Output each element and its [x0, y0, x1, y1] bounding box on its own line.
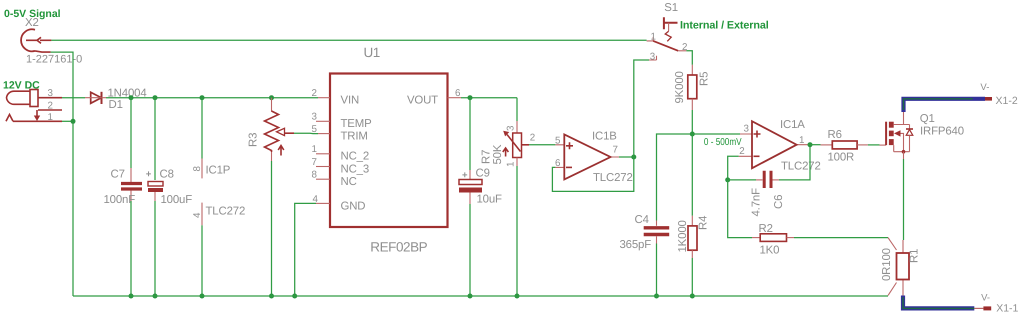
pin VOUT stub	[448, 97, 462, 99]
svg-text:C8: C8	[160, 169, 174, 181]
junction IC1A output node	[808, 142, 813, 147]
svg-text:1: 1	[799, 135, 804, 146]
svg-text:3: 3	[312, 112, 318, 123]
svg-text:V-: V-	[981, 292, 990, 303]
svg-text:IRFP640: IRFP640	[920, 125, 964, 137]
ground bus wire	[73, 295, 888, 297]
svg-text:VOUT: VOUT	[407, 95, 438, 107]
pin NC stub	[316, 178, 330, 180]
switch S1 symbol	[647, 17, 687, 60]
op-amp IC1B	[555, 135, 619, 180]
trimmer R3	[265, 98, 295, 161]
junction C4 ground	[654, 294, 659, 299]
svg-text:100uF: 100uF	[161, 194, 193, 206]
pin NC_2 stub	[316, 153, 330, 155]
wire divider node down to R4	[691, 134, 693, 216]
svg-text:365pF: 365pF	[620, 239, 652, 251]
capacitor C7	[121, 168, 142, 201]
svg-text:1: 1	[312, 144, 317, 155]
svg-text:U1: U1	[364, 45, 380, 60]
resistor R1 sense	[888, 238, 909, 296]
junction C9 ground	[468, 294, 473, 299]
wire Q1 source down	[903, 159, 905, 240]
connector X1 12V jack symbol	[6, 90, 62, 122]
junction C7 tap	[129, 95, 134, 100]
wire divider to C4 branch	[657, 134, 693, 221]
svg-text:3: 3	[744, 124, 750, 135]
svg-text:+: +	[146, 169, 152, 180]
wire C9 branch lower	[469, 204, 471, 296]
svg-text:3: 3	[48, 88, 54, 99]
svg-text:5: 5	[555, 135, 561, 146]
svg-text:7: 7	[312, 157, 317, 168]
wire R2 to R1 sense node	[794, 237, 888, 239]
svg-text:C6: C6	[773, 195, 785, 209]
svg-text:6: 6	[455, 88, 461, 99]
svg-text:NC_2: NC_2	[341, 151, 370, 163]
svg-text:R4: R4	[698, 216, 710, 230]
wire R7 wiper to IC1B plus input	[529, 144, 555, 146]
pin GND stub	[316, 202, 330, 204]
wire X2 shield down to ground bus	[51, 52, 73, 296]
svg-text:R3: R3	[248, 133, 260, 147]
wire IC1P pin4 to ground	[201, 225, 203, 296]
svg-text:2: 2	[530, 133, 535, 144]
pin TEMP stub	[316, 120, 330, 122]
wire R7 bottom to ground	[516, 166, 518, 296]
svg-text:100R: 100R	[828, 151, 855, 163]
wire R5 bottom to divider node	[691, 110, 693, 134]
wire C8 branch lower	[154, 201, 156, 296]
svg-text:GND: GND	[341, 200, 366, 212]
svg-text:Q1: Q1	[920, 113, 935, 125]
svg-text:VIN: VIN	[341, 95, 360, 107]
svg-text:4.7nF: 4.7nF	[751, 188, 763, 217]
svg-text:TRIM: TRIM	[341, 131, 368, 143]
svg-text:1K0: 1K0	[760, 245, 780, 257]
wire divider node to IC1A plus input	[692, 133, 740, 135]
junction ground at X1 pin1	[71, 119, 76, 124]
svg-text:C9: C9	[476, 168, 490, 180]
connector X2 BNC symbol	[21, 29, 51, 52]
wire V- thick blue bottom	[903, 296, 974, 309]
IC U1 REF02BP box	[330, 74, 448, 228]
svg-text:2: 2	[312, 88, 317, 99]
wire C7 branch lower	[130, 201, 132, 296]
svg-text:X2: X2	[25, 17, 39, 29]
svg-text:9K000: 9K000	[674, 71, 686, 103]
junction R3 ground	[269, 294, 274, 299]
wire R6 to Q1 gate	[868, 144, 880, 146]
svg-text:X1-2: X1-2	[996, 95, 1018, 107]
svg-text:TLC272: TLC272	[206, 206, 246, 218]
svg-text:Internal / External: Internal / External	[680, 20, 769, 32]
pin X1-1 stub	[974, 307, 983, 309]
svg-text:S1: S1	[664, 2, 678, 14]
svg-text:1: 1	[651, 32, 656, 43]
svg-text:REF02BP: REF02BP	[370, 240, 427, 255]
wire GND pin to ground bus	[295, 203, 316, 296]
trimmer R7	[503, 121, 529, 166]
capacitor C6	[756, 171, 779, 188]
svg-text:4: 4	[192, 212, 203, 218]
svg-text:5: 5	[312, 124, 318, 135]
svg-text:X1-1: X1-1	[996, 303, 1018, 315]
wire X2 center pin to S1 pin 1	[51, 39, 646, 41]
svg-text:V-: V-	[980, 82, 989, 93]
svg-text:R5: R5	[699, 72, 711, 86]
junction C7 ground	[129, 294, 134, 299]
resistor R2	[752, 234, 794, 242]
svg-text:1-227161-0: 1-227161-0	[26, 54, 82, 66]
svg-text:1K000: 1K000	[677, 220, 689, 252]
junction feedback node	[725, 177, 730, 182]
svg-text:3: 3	[506, 125, 517, 131]
wire feedback node down to R2	[728, 180, 752, 238]
wire IC1A minus input to feedback node	[728, 156, 739, 180]
svg-text:TEMP: TEMP	[341, 118, 372, 130]
wire C7 branch upper	[130, 98, 132, 168]
svg-text:TLC272: TLC272	[593, 172, 633, 184]
wire IC1B output	[619, 156, 634, 158]
wire 12V pin3 to diode	[62, 97, 85, 99]
wire IC1B feedback loop	[552, 157, 633, 191]
svg-text:C4: C4	[635, 214, 649, 226]
pin VIN stub	[318, 97, 330, 99]
svg-text:1: 1	[48, 112, 53, 123]
svg-text:8: 8	[192, 166, 203, 172]
svg-text:3: 3	[650, 51, 656, 62]
svg-text:R2: R2	[759, 223, 773, 235]
wire R4 to ground	[691, 258, 693, 296]
svg-text:1: 1	[506, 162, 517, 167]
svg-text:2: 2	[48, 101, 53, 112]
svg-text:R6: R6	[828, 129, 842, 141]
resistor R4	[688, 216, 697, 258]
pin NC_3 stub	[316, 166, 330, 168]
junction R3 tap	[269, 95, 274, 100]
wire C4 to ground	[656, 244, 658, 297]
junction R4 ground	[690, 294, 695, 299]
resistor R6	[821, 141, 868, 149]
capacitor C4	[644, 221, 670, 244]
svg-text:8: 8	[312, 170, 318, 181]
svg-text:IC1P: IC1P	[206, 165, 231, 177]
wire R7 top branch	[516, 98, 518, 121]
svg-text:7: 7	[613, 145, 618, 156]
junction R7 ground	[515, 294, 520, 299]
transistor Q1 gate lead	[880, 144, 887, 146]
wire VOUT to R7	[461, 97, 517, 99]
svg-text:TLC272: TLC272	[781, 161, 821, 173]
svg-text:IC1B: IC1B	[592, 131, 617, 143]
capacitor C9 polarized	[459, 170, 482, 204]
svg-text:R7: R7	[481, 150, 493, 164]
svg-text:6: 6	[555, 158, 561, 169]
svg-text:2: 2	[739, 146, 744, 157]
wire C6 to output node	[779, 145, 810, 180]
pin TRIM stub	[318, 133, 330, 135]
junction IC1B output node	[631, 155, 636, 160]
wire 12V pin1 to ground vertical	[62, 120, 73, 122]
svg-text:0R100: 0R100	[881, 248, 893, 281]
wire V- drain thick blue top	[904, 99, 986, 112]
junction IC1P ground	[200, 294, 205, 299]
svg-text:NC_3: NC_3	[341, 163, 370, 175]
junction C8 tap	[153, 95, 158, 100]
svg-text:C7: C7	[111, 169, 125, 181]
svg-text:50K: 50K	[492, 144, 504, 164]
svg-text:NC: NC	[341, 176, 357, 188]
junction C9 tap	[468, 95, 473, 100]
svg-text:R1: R1	[909, 249, 921, 263]
op-amp IC1P power pin 4	[201, 203, 203, 226]
junction C8 ground	[153, 294, 158, 299]
wire R3 wiper to TRIM	[294, 132, 318, 134]
pin X1-2 stub	[985, 97, 992, 101]
wire S1 pin2 to R5	[686, 51, 692, 65]
svg-text:IC1A: IC1A	[780, 119, 805, 131]
junction IC1P tap	[200, 95, 205, 100]
junction U1 gnd	[292, 294, 297, 299]
wire R3 bottom to ground	[271, 161, 273, 296]
op-amp IC1A	[739, 121, 808, 168]
svg-text:D1: D1	[109, 99, 123, 111]
wire IC1P power branch	[201, 98, 203, 159]
op-amp IC1P power pin 8	[201, 159, 203, 179]
wire output node to R6	[808, 144, 821, 146]
resistor R5	[688, 65, 697, 110]
wire C8 branch upper	[154, 98, 156, 180]
capacitor C8 polarized	[146, 169, 163, 201]
diode D1	[85, 92, 106, 104]
wire IC1B output up to S1 pin 3	[634, 60, 649, 157]
connector X1 switch arrow	[34, 116, 40, 122]
junction divider node	[690, 132, 695, 137]
wire D1 cathode to REF02BP VIN rail	[106, 97, 318, 99]
transistor Q1 MOSFET symbol	[886, 112, 913, 159]
svg-text:0 - 500mV: 0 - 500mV	[704, 137, 742, 148]
wire feedback node to C6	[728, 179, 756, 181]
wire C9 branch upper	[469, 98, 471, 170]
svg-text:10uF: 10uF	[477, 194, 503, 206]
